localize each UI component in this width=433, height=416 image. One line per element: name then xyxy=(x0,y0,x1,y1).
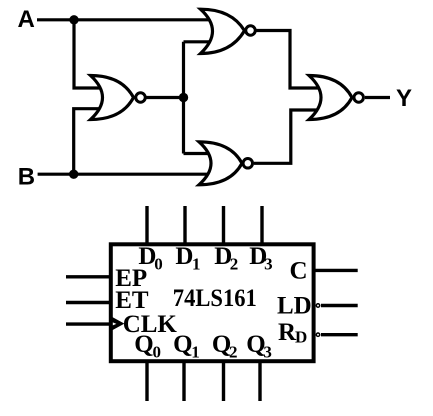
pin EP left xyxy=(66,275,112,278)
svg-text:D: D xyxy=(175,243,193,270)
pin RD bubble xyxy=(316,333,319,336)
IC U1 74LS161 body xyxy=(111,244,314,361)
pin LD right xyxy=(321,304,358,307)
junction dot on B xyxy=(69,170,78,179)
svg-text:Q: Q xyxy=(134,331,153,358)
svg-text:2: 2 xyxy=(229,343,238,362)
svg-text:C: C xyxy=(290,257,308,284)
svg-text:1: 1 xyxy=(191,343,200,362)
pin Q1 bottom xyxy=(182,360,185,401)
junction dot on A xyxy=(69,15,78,24)
CLK edge-trigger triangle xyxy=(112,317,124,331)
CLK triangle white notch xyxy=(113,322,117,325)
svg-text:D: D xyxy=(295,328,307,347)
pin Q2 bottom xyxy=(222,360,225,401)
NOR gate G4 bubble xyxy=(354,93,364,103)
pin C right xyxy=(313,269,358,272)
wire B horizontal xyxy=(38,173,210,176)
svg-text:A: A xyxy=(18,6,35,33)
NOR gate G1 bubble xyxy=(136,93,146,103)
pin CLK left xyxy=(66,322,112,325)
svg-text:3: 3 xyxy=(263,343,272,362)
pin D2 top xyxy=(222,206,225,246)
pin LD bubble xyxy=(316,304,319,307)
svg-text:1: 1 xyxy=(192,254,201,273)
pin D3 top xyxy=(260,206,263,246)
wire G4 output to Y xyxy=(365,96,390,99)
wire node N1 to gate G3 input 1 xyxy=(184,152,212,155)
svg-text:0: 0 xyxy=(153,343,162,362)
svg-text:B: B xyxy=(18,163,35,190)
wire node N1 vertical xyxy=(182,42,185,154)
wire B branch up to gate G1 input 2 xyxy=(74,109,103,175)
pin Q0 bottom xyxy=(145,360,148,401)
NOR gate G2 bubble xyxy=(246,26,256,36)
svg-text:74LS161: 74LS161 xyxy=(173,285,257,312)
pin RD right xyxy=(321,333,358,336)
svg-text:LD: LD xyxy=(277,292,312,319)
pin ET left xyxy=(66,301,112,304)
junction dot node N1 xyxy=(179,93,188,102)
svg-text:3: 3 xyxy=(264,254,273,273)
svg-text:Y: Y xyxy=(396,85,412,112)
NOR gate G2 (top) body xyxy=(201,9,245,53)
svg-text:0: 0 xyxy=(154,254,163,273)
pin Q3 bottom xyxy=(258,360,261,401)
svg-text:2: 2 xyxy=(230,254,239,273)
wire node N1 to gate G2 input 2 xyxy=(184,40,213,43)
NOR gate G1 (middle left) body xyxy=(91,76,134,120)
wire G1 output to node N1 xyxy=(146,96,184,99)
wire A branch down to gate G1 input 1 xyxy=(74,20,103,88)
svg-text:Q: Q xyxy=(173,331,192,358)
wire A horizontal xyxy=(37,18,212,21)
NOR gate G3 (bottom) body xyxy=(199,142,242,185)
pin D0 top xyxy=(145,206,148,246)
wire G3 output to gate G4 input 2 xyxy=(254,110,320,163)
NOR gate G4 (output) body xyxy=(309,76,352,120)
wire G2 output to gate G4 input 1 xyxy=(257,31,321,89)
NOR gate G3 bubble xyxy=(243,159,253,169)
pin D1 top xyxy=(183,206,186,246)
